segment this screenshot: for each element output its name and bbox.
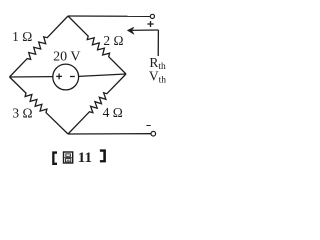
svg-text:4 Ω: 4 Ω [103,105,123,120]
svg-text:2 Ω: 2 Ω [103,33,123,48]
svg-text:1 Ω: 1 Ω [12,29,32,44]
svg-text:3 Ω: 3 Ω [12,105,32,120]
svg-text:11: 11 [78,150,92,166]
svg-text:20 V: 20 V [53,49,80,64]
